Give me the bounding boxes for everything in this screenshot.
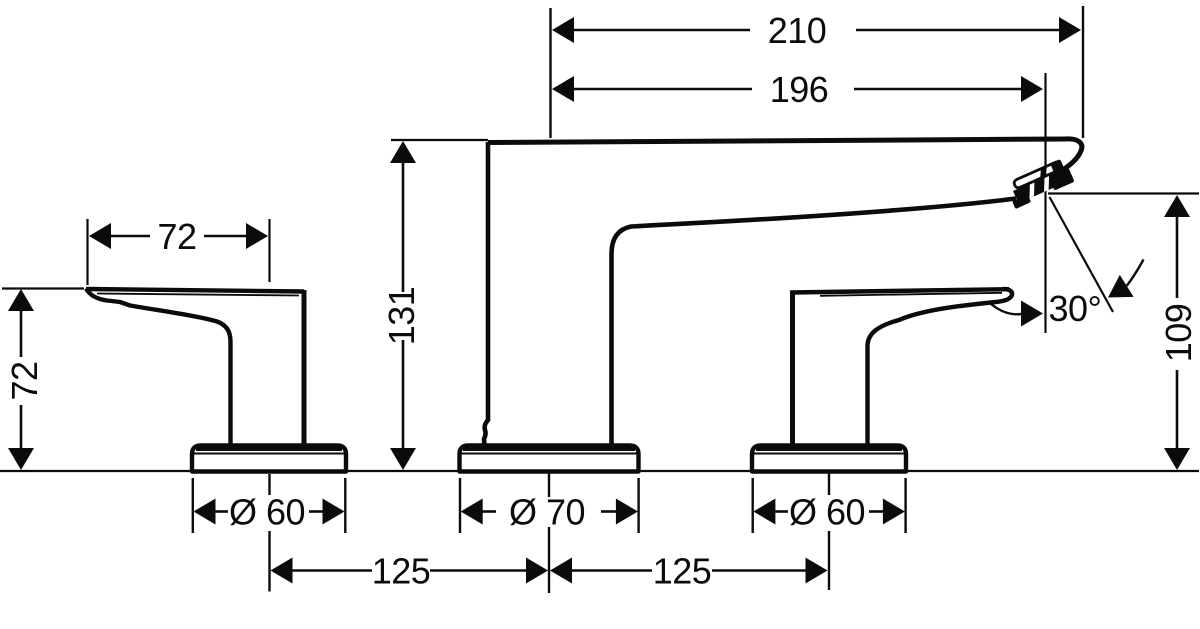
svg-text:Ø 70: Ø 70 [509,492,585,533]
left handle underside [86,289,231,446]
svg-text:72: 72 [157,216,196,257]
dimension 109 arrow up [1164,195,1190,217]
middle base escutcheon [460,446,639,472]
dimension 210 arrow right [1059,17,1081,43]
dimension 125 right line [571,569,652,572]
spout underside [612,199,1017,446]
diameter 70 extension lines [459,478,461,533]
diameter 60 left extension lines [192,478,194,533]
dimension 109 top reference line [1048,192,1199,194]
aerator rim divider [1037,166,1051,178]
dimension 125 right arrow left [550,558,572,584]
diameter 70 arrows [461,499,483,525]
aerator assembly (tilted face) [1004,157,1075,209]
angle 30 deg arc tail left [991,304,1021,314]
left base escutcheon [192,446,346,472]
aerator body band [1013,167,1073,204]
diameter 70 stubs [481,510,496,513]
dimension 72 horizontal arrow right [246,223,268,249]
right handle left edge [790,291,795,445]
dimension 109 arrow down [1164,448,1190,470]
diameter 60 right arrows [753,499,775,525]
dimension 72 horizontal line [109,235,150,238]
center axis line left handle [268,474,270,495]
spout top edge [488,139,1066,143]
aerator left end tab [1012,194,1031,209]
dimension 196 arrow left [552,76,574,102]
dimension 210 arrow left [552,17,574,43]
right handle top inner edge line [820,293,1002,296]
aerator white slash 1 [1024,181,1040,198]
left handle top inner edge line [97,294,299,296]
svg-text:109: 109 [1158,304,1199,363]
spout left edge with clip notch [484,142,488,445]
angle 30 deg arrow at vertical leg [1021,301,1043,327]
right base escutcheon [752,446,906,472]
dimension 72 vertical arrow up [8,289,34,311]
dimension 72 horizontal arrow left [89,223,111,249]
svg-text:Ø 60: Ø 60 [229,492,305,533]
dimension 125 left arrow left [271,558,293,584]
right handle lever contour [790,289,1009,292]
dimension 210 extension line right [1082,6,1084,138]
svg-text:30°: 30° [1049,288,1102,329]
diameter 60 left arrows [194,499,216,525]
dimension 109 line [1176,216,1179,298]
right handle underside [868,289,1013,445]
dimension 131 line [402,162,405,292]
svg-text:Ø 60: Ø 60 [789,492,865,533]
diameter 60 left stubs [214,510,228,513]
angle 30 deg diagonal leg [1050,197,1114,312]
aerator white slash 2 [1039,175,1055,192]
dimension 196 arrow right [1021,76,1043,102]
svg-text:196: 196 [770,69,829,110]
dimension 131 top extension line [391,139,488,141]
svg-text:72: 72 [4,361,45,400]
angle 30 deg arc tail right [1127,260,1144,286]
center axis line right handle [828,472,830,495]
mounting plane line between middle and right base [640,470,751,472]
dimension 210 line [572,29,750,32]
mounting plane line left segment [0,470,191,472]
dimension 72 vertical line [20,310,23,357]
mounting plane / 109 reference line right segment [907,470,1199,472]
dimension 72 horizontal extension line right [268,219,270,282]
diameter 60 right extension lines [752,478,754,533]
svg-text:125: 125 [372,551,431,592]
aerator top rim strip [1013,161,1062,189]
svg-text:210: 210 [768,10,827,51]
center axis line spout [548,473,550,497]
angle 30 deg arrow at diagonal leg [1108,275,1134,298]
svg-text:125: 125 [653,551,712,592]
dimension 210 extension line left [549,8,551,138]
dimension 72 vertical top extension line [2,287,84,289]
dimension 125 right arrow right [806,558,828,584]
dimension 72 horizontal extension line left [86,219,88,285]
svg-text:131: 131 [381,287,422,346]
dimension 125 left arrow right [526,558,548,584]
dimension 196 extension line right / angle vertical leg [1044,73,1046,333]
dimension 131 arrow up [390,141,416,163]
aerator right end step [1048,167,1075,191]
dimension 125 left line [291,569,372,572]
mounting plane line between left and middle base [348,470,459,472]
diameter 60 right stubs [774,510,788,513]
dimension 196 line [572,88,752,91]
left handle lever contour [86,289,304,292]
aerator rim right cap [1050,159,1064,173]
dimension 131 arrow down [390,448,416,470]
left handle right edge [302,290,307,445]
dimension 72 vertical arrow down [8,448,34,470]
spout nose curve [1063,139,1082,170]
